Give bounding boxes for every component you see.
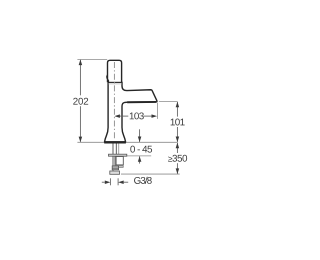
dimension >=350 bottom arrow [176, 168, 180, 174]
thread ridge line 1 [112, 166, 118, 168]
washer level line (0-45 lower reference) [127, 155, 152, 157]
mounting surface line [77, 141, 177, 143]
centerline of body [113, 62, 115, 140]
dimension 0-45 label [130, 146, 152, 153]
dimension 103 line left segment [119, 115, 128, 117]
side outlet step [119, 166, 124, 167]
knob left bump [107, 75, 109, 82]
dimension G3/8 right line [124, 181, 129, 183]
dimension 103 line right segment [144, 115, 153, 117]
threaded section [112, 166, 118, 170]
spout outlet level extension line [159, 100, 178, 102]
dimension G3/8 label [134, 177, 152, 184]
dimension 202 label [73, 98, 88, 105]
faucet body and spout outline [105, 82, 157, 142]
extension line top of faucet [77, 58, 107, 60]
dimension >=350 line lower segment [176, 163, 178, 174]
dimension 103 left arrow [114, 114, 120, 118]
base bottom thick line [104, 141, 126, 143]
dimension G3/8 left tick [109, 178, 111, 185]
fixing washer plate [109, 154, 127, 156]
thread ridge line 2 [112, 167, 118, 169]
dimension >=350 line upper segment [176, 143, 178, 153]
dimension >=350 label [168, 155, 187, 162]
dimension G3/8 left line [102, 181, 105, 183]
dimension 202 line upper segment [79, 60, 81, 95]
threaded stud left line [112, 143, 114, 171]
dimension 101 bottom arrow [176, 137, 180, 143]
spout bottom edge emphasis [127, 101, 156, 103]
knob joint line [108, 81, 122, 83]
bottom hose nut [110, 171, 120, 174]
dimension 101 label [171, 119, 185, 126]
hose end reference line (>=350 bottom) [121, 173, 180, 175]
dimension 202 bottom arrow [79, 137, 83, 143]
dimension 0-45 lower arrow line [139, 156, 141, 163]
socket body under deck [116, 157, 123, 165]
knob (top handle) [108, 60, 122, 82]
dimension 103 right arrow [152, 114, 158, 118]
dimension 0-45 lower arrow [138, 156, 142, 162]
dimension 101 top arrow [176, 102, 180, 108]
dimension >=350 top arrow [176, 143, 180, 149]
dimension 0-45 upper arrow line [139, 129, 141, 142]
dimension 101 line upper segment [176, 102, 178, 117]
dimension 101 line lower segment [176, 127, 178, 142]
dimension G3/8 right tick [117, 178, 119, 185]
dimension 0-45 upper arrow [138, 137, 142, 143]
dimension 202 line lower segment [79, 106, 81, 142]
threaded stud right line [115, 143, 117, 154]
dimension G3/8 right arrow [118, 180, 124, 184]
spout tip extension line for 103 [156, 103, 158, 119]
dimension G3/8 left arrow [105, 180, 111, 184]
joint shadow line [108, 83, 122, 85]
stud line below washer [114, 156, 116, 165]
dimension 103 label [130, 112, 144, 119]
supply pipe line [118, 143, 120, 154]
dimension 202 top arrow [79, 60, 83, 66]
